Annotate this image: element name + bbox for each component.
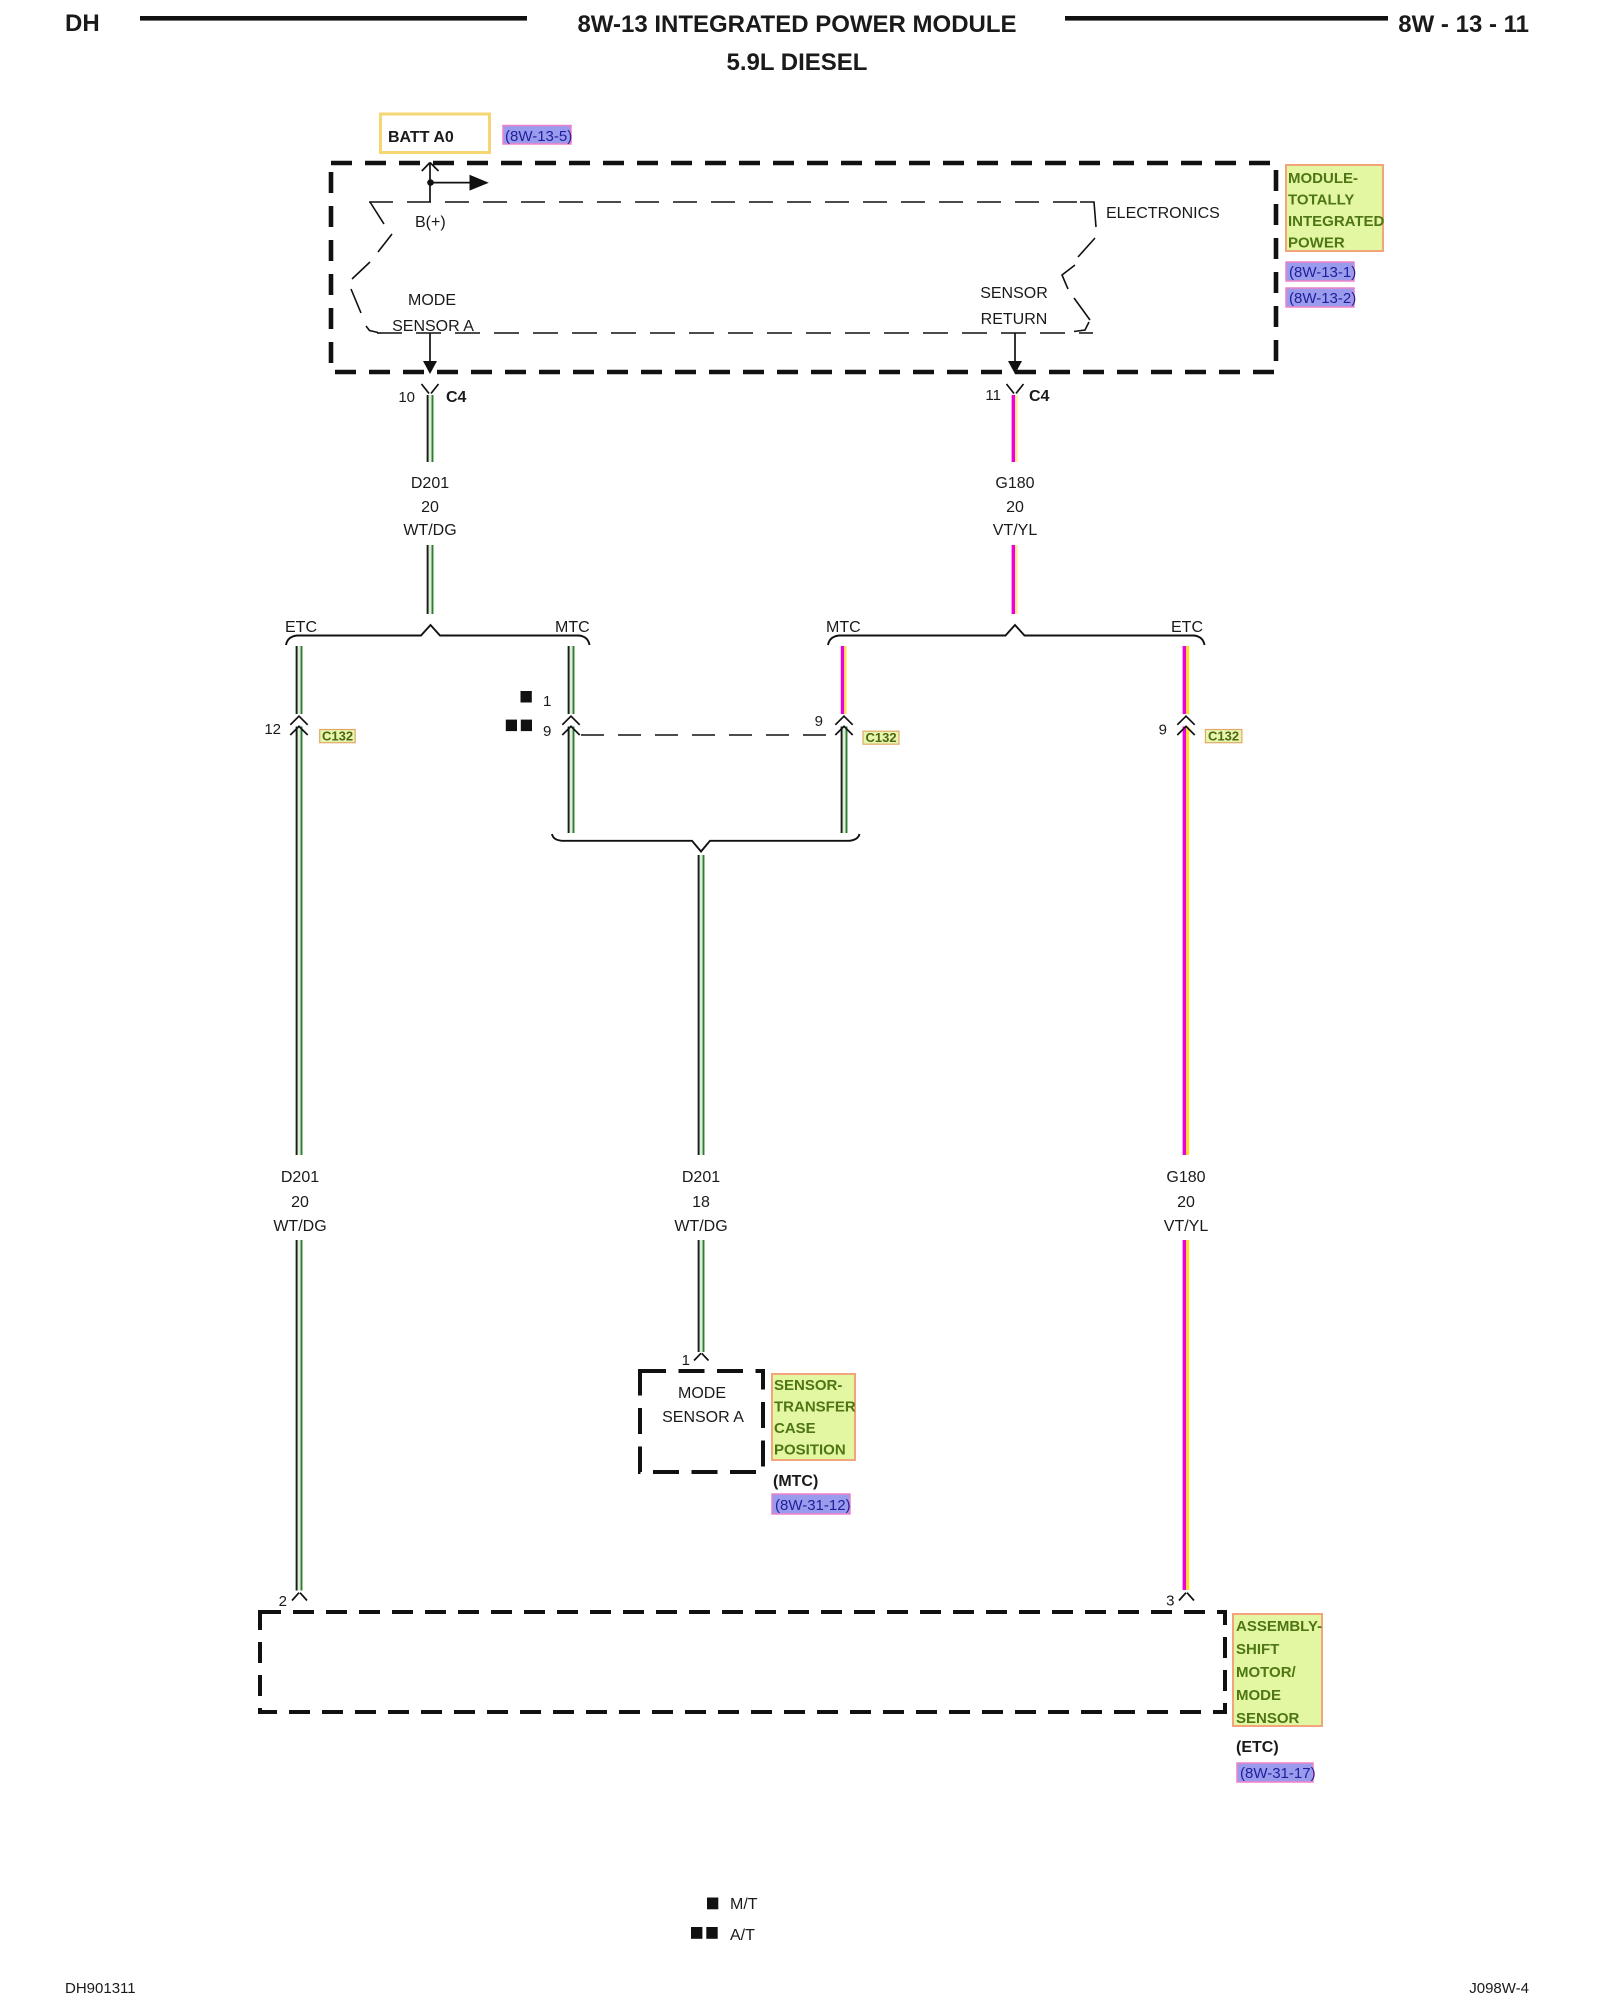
- svg-text:10: 10: [398, 389, 415, 406]
- svg-text:CASE: CASE: [774, 1420, 816, 1437]
- svg-text:SENSOR: SENSOR: [1236, 1710, 1300, 1727]
- svg-text:(8W-31-17): (8W-31-17): [1240, 1765, 1316, 1782]
- svg-text:C4: C4: [1029, 388, 1050, 405]
- svg-text:(MTC): (MTC): [773, 1473, 818, 1490]
- svg-text:5.9L DIESEL: 5.9L DIESEL: [727, 49, 868, 76]
- svg-text:3: 3: [1166, 1593, 1174, 1610]
- svg-text:(8W-31-12): (8W-31-12): [775, 1497, 851, 1514]
- svg-text:MODULE-: MODULE-: [1288, 170, 1358, 187]
- svg-text:(8W-13-5): (8W-13-5): [505, 128, 572, 145]
- svg-text:VT/YL: VT/YL: [1164, 1218, 1209, 1235]
- svg-text:(ETC): (ETC): [1236, 1739, 1279, 1756]
- svg-text:POWER: POWER: [1288, 235, 1345, 252]
- svg-text:9: 9: [543, 723, 551, 740]
- svg-text:DH901311: DH901311: [65, 1980, 136, 1997]
- svg-text:INTEGRATED: INTEGRATED: [1288, 213, 1385, 230]
- svg-text:MODE: MODE: [408, 292, 456, 309]
- svg-text:WT/DG: WT/DG: [273, 1218, 326, 1235]
- svg-text:SENSOR A: SENSOR A: [662, 1409, 744, 1426]
- svg-text:MTC: MTC: [555, 619, 590, 636]
- svg-text:20: 20: [1006, 499, 1024, 516]
- svg-text:TOTALLY: TOTALLY: [1288, 192, 1354, 209]
- svg-text:A/T: A/T: [730, 1927, 755, 1944]
- svg-text:WT/DG: WT/DG: [674, 1218, 727, 1235]
- svg-text:POSITION: POSITION: [774, 1442, 846, 1459]
- svg-text:D201: D201: [682, 1169, 720, 1186]
- svg-text:D201: D201: [411, 475, 449, 492]
- svg-text:C132: C132: [322, 729, 353, 744]
- svg-text:MODE: MODE: [678, 1385, 726, 1402]
- svg-text:SENSOR: SENSOR: [980, 285, 1048, 302]
- svg-text:D201: D201: [281, 1169, 319, 1186]
- svg-text:MODE: MODE: [1236, 1687, 1281, 1704]
- svg-text:SENSOR-: SENSOR-: [774, 1377, 842, 1394]
- svg-text:SENSOR A: SENSOR A: [392, 318, 474, 335]
- svg-text:ETC: ETC: [285, 619, 317, 636]
- svg-text:1: 1: [543, 693, 551, 710]
- svg-text:G180: G180: [995, 475, 1034, 492]
- svg-text:B(+): B(+): [415, 214, 446, 231]
- svg-text:J098W-4: J098W-4: [1469, 1980, 1529, 1997]
- svg-text:20: 20: [1177, 1194, 1195, 1211]
- svg-text:G180: G180: [1166, 1169, 1205, 1186]
- svg-text:(8W-13-1): (8W-13-1): [1289, 264, 1356, 281]
- svg-text:11: 11: [985, 387, 1001, 404]
- svg-text:SHIFT: SHIFT: [1236, 1641, 1279, 1658]
- svg-text:C4: C4: [446, 389, 467, 406]
- svg-text:WT/DG: WT/DG: [403, 522, 456, 539]
- svg-text:(8W-13-2): (8W-13-2): [1289, 290, 1356, 307]
- svg-text:1: 1: [682, 1352, 690, 1369]
- svg-text:MOTOR/: MOTOR/: [1236, 1664, 1297, 1681]
- svg-text:2: 2: [279, 1593, 287, 1610]
- svg-text:9: 9: [1159, 722, 1167, 739]
- svg-text:8W-13 INTEGRATED POWER MODULE: 8W-13 INTEGRATED POWER MODULE: [577, 11, 1016, 38]
- svg-text:ASSEMBLY-: ASSEMBLY-: [1236, 1618, 1322, 1635]
- svg-text:20: 20: [291, 1194, 309, 1211]
- svg-text:C132: C132: [1208, 729, 1239, 744]
- svg-text:TRANSFER: TRANSFER: [774, 1399, 856, 1416]
- svg-text:8W - 13 - 11: 8W - 13 - 11: [1398, 11, 1529, 38]
- svg-text:C132: C132: [866, 730, 897, 745]
- svg-text:12: 12: [264, 721, 281, 738]
- svg-text:RETURN: RETURN: [981, 311, 1048, 328]
- svg-text:18: 18: [692, 1194, 710, 1211]
- svg-text:ELECTRONICS: ELECTRONICS: [1106, 205, 1220, 222]
- svg-text:9: 9: [815, 713, 823, 730]
- svg-text:MTC: MTC: [826, 619, 861, 636]
- svg-text:M/T: M/T: [730, 1896, 758, 1913]
- svg-text:DH: DH: [65, 10, 100, 37]
- svg-text:20: 20: [421, 499, 439, 516]
- svg-text:VT/YL: VT/YL: [993, 522, 1038, 539]
- svg-text:BATT A0: BATT A0: [388, 129, 454, 146]
- svg-text:ETC: ETC: [1171, 619, 1203, 636]
